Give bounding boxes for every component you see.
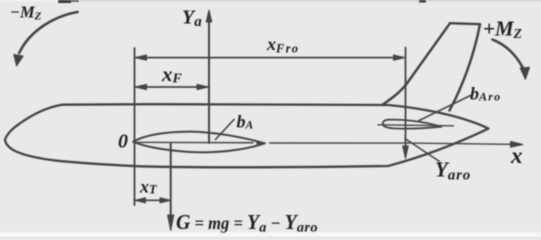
vertical tail fin trailing edge xyxy=(450,24,481,110)
wing airfoil trailing-edge wedge xyxy=(254,140,266,147)
tail airfoil body xyxy=(383,120,442,129)
G arrowhead xyxy=(168,215,174,231)
Ya axis arrowhead xyxy=(206,10,212,22)
wing airfoil top surface xyxy=(134,132,265,144)
left dimension tick line xyxy=(134,48,136,205)
svg-text:0: 0 xyxy=(118,131,128,153)
x-axis arrowhead xyxy=(511,141,524,147)
svg-text:x: x xyxy=(510,143,523,168)
wing chord / x-axis line xyxy=(133,141,253,143)
minus Mz arrowhead xyxy=(14,55,23,67)
G weight force arrow line xyxy=(170,144,172,217)
top edge artifact mark right xyxy=(419,0,426,3)
Yaro arrowhead xyxy=(403,146,409,159)
svg-text:G = mg = Ya − Yaro: G = mg = Ya − Yaro xyxy=(176,210,318,236)
vertical tail fin top edge xyxy=(450,23,480,24)
x_F dimension line xyxy=(136,86,208,88)
wing airfoil bottom surface xyxy=(134,142,265,153)
b_A leader line xyxy=(216,120,235,140)
x-axis line after gap xyxy=(270,143,520,144)
x_T right arrowhead xyxy=(160,198,171,203)
Y_aro leader line xyxy=(405,139,440,162)
x_T dimension line xyxy=(135,199,170,201)
b_Aro leader line xyxy=(419,96,471,121)
Ya axis line xyxy=(208,20,210,143)
x_Fro right arrowhead xyxy=(394,55,406,60)
vertical tail fin leading edge xyxy=(383,23,451,105)
right dimension tick / Yaro arrow line xyxy=(405,48,407,148)
fuselage outline xyxy=(5,104,489,167)
x_Fro left arrowhead xyxy=(135,55,147,60)
x_F right arrowhead xyxy=(197,84,209,89)
plus Mz curved moment arrow xyxy=(493,40,524,68)
x_Fro dimension line xyxy=(136,57,403,59)
tail airfoil chord line xyxy=(378,125,454,126)
x_F left arrowhead xyxy=(135,84,147,89)
x_T left arrowhead xyxy=(135,198,146,203)
bottom white page edge xyxy=(0,232,541,238)
minus Mz curved moment arrow xyxy=(19,12,77,53)
top white page edge xyxy=(0,0,541,2)
top edge artifact mark left xyxy=(58,0,71,3)
plus Mz arrowhead xyxy=(520,67,529,79)
